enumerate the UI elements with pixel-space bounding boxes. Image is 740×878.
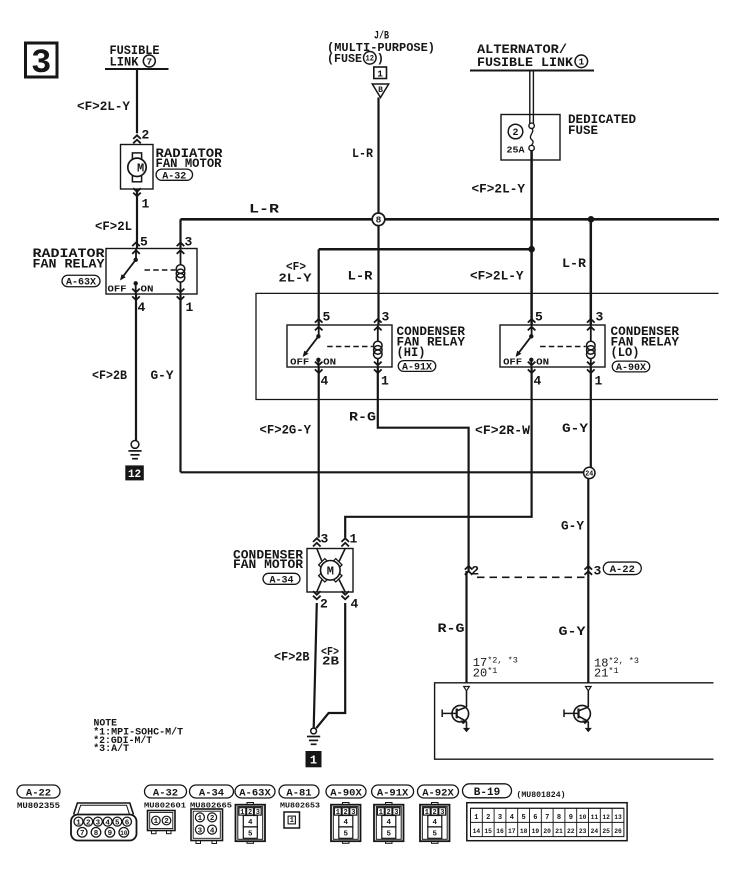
svg-text:3: 3 xyxy=(382,310,390,325)
svg-text:M: M xyxy=(327,565,334,579)
svg-text:ON: ON xyxy=(141,284,154,294)
svg-text:<F>2L-Y: <F>2L-Y xyxy=(472,183,526,197)
svg-text:4: 4 xyxy=(105,819,110,827)
svg-text:16: 16 xyxy=(496,828,504,835)
svg-text:11: 11 xyxy=(591,814,599,821)
svg-text:10: 10 xyxy=(120,830,127,837)
svg-text:): ) xyxy=(377,52,384,66)
svg-text:OFF: OFF xyxy=(108,284,127,294)
svg-text:A-22: A-22 xyxy=(610,564,635,576)
svg-text:8: 8 xyxy=(376,215,382,226)
svg-text:2: 2 xyxy=(512,128,518,139)
svg-text:5: 5 xyxy=(521,814,525,822)
svg-text:3: 3 xyxy=(96,819,101,827)
svg-text:<F>2G-Y: <F>2G-Y xyxy=(260,424,312,438)
svg-text:R-G: R-G xyxy=(349,411,376,425)
svg-text:24: 24 xyxy=(585,471,593,479)
svg-text:<F>2B: <F>2B xyxy=(274,651,310,665)
svg-text:FUSIBLE LINK: FUSIBLE LINK xyxy=(477,56,574,70)
svg-text:5: 5 xyxy=(115,819,120,827)
svg-text:2L-Y: 2L-Y xyxy=(279,272,313,286)
svg-text:4: 4 xyxy=(510,814,514,822)
svg-text:5: 5 xyxy=(433,830,438,838)
svg-text:15: 15 xyxy=(484,828,492,835)
svg-text:6: 6 xyxy=(125,819,130,827)
svg-text:17: 17 xyxy=(508,828,516,835)
svg-text:4: 4 xyxy=(534,374,542,389)
svg-text:FAN MOTOR: FAN MOTOR xyxy=(233,558,304,572)
svg-text:3: 3 xyxy=(31,45,51,83)
svg-text:ON: ON xyxy=(323,357,336,367)
svg-text:(MU801824): (MU801824) xyxy=(517,791,566,800)
svg-text:2B: 2B xyxy=(322,654,339,668)
svg-text:<F>2L-Y: <F>2L-Y xyxy=(77,100,130,114)
svg-text:(LO): (LO) xyxy=(611,346,640,360)
svg-text:1: 1 xyxy=(474,814,478,822)
svg-text:1: 1 xyxy=(595,374,603,389)
svg-text:2: 2 xyxy=(164,818,169,826)
svg-text:A-63X: A-63X xyxy=(239,787,271,799)
svg-text:MU802601: MU802601 xyxy=(144,803,187,811)
svg-text:G-Y: G-Y xyxy=(562,422,589,436)
svg-text:4: 4 xyxy=(210,827,215,835)
svg-text:(FUSE: (FUSE xyxy=(327,52,362,66)
svg-text:5: 5 xyxy=(248,830,253,838)
svg-text:OFF: OFF xyxy=(290,357,309,367)
svg-text:3: 3 xyxy=(594,564,602,579)
svg-text:23: 23 xyxy=(579,828,587,835)
svg-text:5: 5 xyxy=(387,830,392,838)
svg-text:5: 5 xyxy=(323,310,331,325)
svg-text:12: 12 xyxy=(366,55,375,64)
svg-text:2: 2 xyxy=(320,597,328,612)
svg-text:L-R: L-R xyxy=(348,270,374,284)
svg-text:ON: ON xyxy=(536,357,549,367)
svg-text:7: 7 xyxy=(146,56,152,67)
svg-text:<F>2L-Y: <F>2L-Y xyxy=(470,270,524,284)
svg-text:A-63X: A-63X xyxy=(66,278,96,289)
svg-text:2: 2 xyxy=(86,819,91,827)
svg-text:13: 13 xyxy=(614,814,622,821)
svg-text:18: 18 xyxy=(520,828,528,835)
svg-text:<F>2L: <F>2L xyxy=(95,220,132,234)
svg-text:7: 7 xyxy=(80,830,85,838)
svg-text:L-R: L-R xyxy=(249,203,280,217)
svg-text:L-R: L-R xyxy=(352,147,373,161)
svg-text:M: M xyxy=(137,162,144,176)
svg-text:A-90X: A-90X xyxy=(330,787,362,799)
svg-text:1: 1 xyxy=(290,817,294,825)
svg-text:3: 3 xyxy=(596,310,604,325)
svg-text:19: 19 xyxy=(532,828,540,835)
svg-text:*3:A/T: *3:A/T xyxy=(93,743,129,755)
svg-text:4: 4 xyxy=(248,819,253,827)
svg-text:1: 1 xyxy=(578,57,584,68)
svg-text:8: 8 xyxy=(557,814,561,822)
svg-text:12: 12 xyxy=(128,469,141,481)
svg-text:4: 4 xyxy=(433,819,438,827)
svg-text:5: 5 xyxy=(344,830,349,838)
svg-text:6: 6 xyxy=(533,814,537,822)
svg-text:1: 1 xyxy=(76,819,81,827)
svg-text:2: 2 xyxy=(486,814,490,822)
svg-text:25: 25 xyxy=(602,828,610,835)
svg-text:4: 4 xyxy=(387,819,392,827)
svg-text:20: 20 xyxy=(543,828,551,835)
svg-text:<F>2B: <F>2B xyxy=(92,369,127,383)
svg-text:A-32: A-32 xyxy=(153,787,178,799)
svg-text:R-G: R-G xyxy=(438,622,465,636)
svg-text:4: 4 xyxy=(138,300,146,315)
svg-text:5: 5 xyxy=(535,310,543,325)
svg-text:4: 4 xyxy=(321,374,329,389)
svg-text:FAN RELAY: FAN RELAY xyxy=(33,257,106,271)
svg-text:9: 9 xyxy=(569,814,573,822)
svg-text:1: 1 xyxy=(142,197,150,212)
svg-text:3: 3 xyxy=(198,827,203,835)
svg-text:1: 1 xyxy=(377,68,383,79)
svg-text:3: 3 xyxy=(185,235,193,250)
svg-text:MU802653: MU802653 xyxy=(280,803,321,811)
svg-text:LINK: LINK xyxy=(110,55,139,69)
svg-text:1: 1 xyxy=(154,818,159,826)
svg-text:22: 22 xyxy=(567,828,575,835)
svg-text:25A: 25A xyxy=(507,145,525,156)
svg-text:8: 8 xyxy=(94,830,99,838)
svg-text:A-92X: A-92X xyxy=(422,787,454,799)
svg-text:7: 7 xyxy=(545,814,549,822)
svg-text:B: B xyxy=(378,86,383,95)
svg-text:3: 3 xyxy=(321,532,329,547)
svg-text:A-32: A-32 xyxy=(162,171,186,182)
svg-text:ALTERNATOR/: ALTERNATOR/ xyxy=(477,43,567,57)
svg-text:A-22: A-22 xyxy=(26,787,51,799)
svg-text:B-19: B-19 xyxy=(474,787,500,799)
svg-text:1: 1 xyxy=(186,300,194,315)
svg-text:21: 21 xyxy=(555,828,563,835)
svg-text:1: 1 xyxy=(310,753,317,767)
svg-text:24: 24 xyxy=(591,828,599,835)
svg-text:L-R: L-R xyxy=(562,257,587,271)
svg-text:<F>2R-W: <F>2R-W xyxy=(475,424,531,438)
svg-text:14: 14 xyxy=(473,828,481,835)
svg-text:G-Y: G-Y xyxy=(561,520,584,534)
svg-text:4: 4 xyxy=(351,597,359,612)
svg-text:10: 10 xyxy=(579,814,587,821)
svg-text:A-81: A-81 xyxy=(286,787,311,799)
svg-text:G-Y: G-Y xyxy=(559,625,587,639)
svg-text:FUSE: FUSE xyxy=(568,124,598,138)
svg-text:2: 2 xyxy=(142,128,150,143)
svg-text:1: 1 xyxy=(350,532,358,547)
svg-text:A-34: A-34 xyxy=(199,787,224,799)
svg-text:2: 2 xyxy=(471,564,479,579)
svg-text:OFF: OFF xyxy=(503,357,522,367)
svg-text:(HI): (HI) xyxy=(397,346,426,360)
svg-text:A-91X: A-91X xyxy=(377,787,409,799)
svg-text:G-Y: G-Y xyxy=(151,369,174,383)
svg-text:9: 9 xyxy=(108,830,113,838)
svg-text:1: 1 xyxy=(381,374,389,389)
svg-text:2: 2 xyxy=(210,815,215,823)
svg-text:A-34: A-34 xyxy=(269,575,293,586)
svg-text:1: 1 xyxy=(198,815,203,823)
svg-text:5: 5 xyxy=(140,235,148,250)
svg-text:4: 4 xyxy=(344,819,349,827)
svg-text:MU802355: MU802355 xyxy=(17,802,60,811)
svg-text:26: 26 xyxy=(614,828,622,835)
svg-text:3: 3 xyxy=(498,814,502,822)
svg-text:A-90X: A-90X xyxy=(616,363,646,374)
svg-text:12: 12 xyxy=(602,814,610,821)
svg-text:A-91X: A-91X xyxy=(402,363,432,374)
